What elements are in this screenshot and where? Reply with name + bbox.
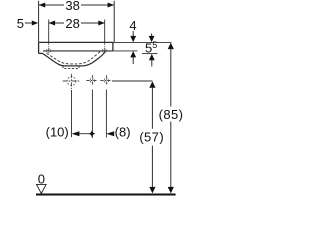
washbasin rim bottom edge [43,50,113,52]
dim (10): short line to diamond [79,133,90,135]
arrowhead 5 (points right at basin edge) [32,21,38,26]
dim (85): upper stem [170,48,172,106]
level line 4 below top [113,50,138,52]
dim (57): upper stem [151,87,153,129]
supply connection right: horizontal arm [100,80,111,82]
supply connection right: vertical arm [105,75,107,86]
dim 4: lower stem [132,57,134,64]
fixing hole right: dashed circle [103,49,107,53]
supply level line to (57) [112,80,152,82]
svg-text:(57): (57) [139,130,164,145]
drain trap: dashed circle [67,77,76,86]
dim 5.5: upper stem [151,34,153,38]
dim 5 tail [25,22,34,24]
bowl outer silhouette [43,51,106,66]
dim (85): up arrowhead at rim level [168,43,174,50]
svg-text:28: 28 [65,16,79,31]
svg-text:5: 5 [152,40,157,50]
svg-text:38: 38 [65,0,79,13]
svg-text:4: 4 [129,18,136,33]
centerline right fixing hole (28 extension) [104,20,106,43]
fixing hole left: dashed circle [47,49,51,53]
svg-text:5: 5 [145,41,152,56]
drain recess hidden outline (dashed) [63,66,79,69]
level line 5.5 below top [142,53,158,55]
drain trap: vertical centerline [71,74,73,89]
svg-text:(8): (8) [115,124,131,139]
dim 5.5: down arrowhead [149,36,155,42]
dim 4: up arrowhead [130,51,136,57]
arrowhead 38 right [108,3,114,8]
dim (8): left arrowhead at supply right line [106,131,114,136]
floor line [36,194,176,196]
dim (57): lower stem [151,146,153,187]
centerline left fixing hole (28 extension) [48,20,50,43]
washbasin rim left edge [38,42,40,53]
supply left drop line [91,90,93,139]
dim (10)/(8): diamond marker at supply line [89,130,96,137]
supply connection right: dashed circle [104,78,109,83]
dim 5.5: up arrowhead [149,54,155,60]
dim 4: down arrowhead [130,36,136,42]
datum triangle [37,184,47,193]
rim top level line (right) [113,41,171,43]
arrowhead 28 right [98,21,104,26]
washbasin rim right edge [112,42,114,51]
arrowhead 38 left [39,3,45,8]
svg-text:(10): (10) [46,124,69,139]
drain trap: horizontal centerline [63,80,81,82]
dim (57): up arrowhead at supply level [149,81,155,88]
dim (10): left arrowhead at drain line [72,131,80,136]
supply connection left: vertical arm [91,75,93,86]
dim line 38 [39,4,64,6]
svg-text:(85): (85) [159,107,184,122]
washbasin front lip segment [39,52,43,54]
dim (85): lower stem [170,122,172,188]
dim 5.5: lower stem [151,60,153,67]
extension line right of dim 38 [113,1,115,42]
drain drop line [71,90,73,137]
washbasin rim top edge [39,41,113,43]
dim 4: upper stem [132,31,134,37]
supply right drop line [105,90,107,138]
supply connection left: dashed circle [90,78,95,83]
dim line 28 [49,22,64,24]
extension line left of dim 38 [38,1,40,42]
supply connection left: horizontal arm [86,80,97,82]
svg-text:5: 5 [17,16,24,31]
arrowhead 28 left [49,21,55,26]
dim (57): down arrowhead at floor [149,187,155,194]
bowl inner hidden curve (dashed) [47,51,101,64]
dim (85): down arrowhead at floor [168,187,174,194]
